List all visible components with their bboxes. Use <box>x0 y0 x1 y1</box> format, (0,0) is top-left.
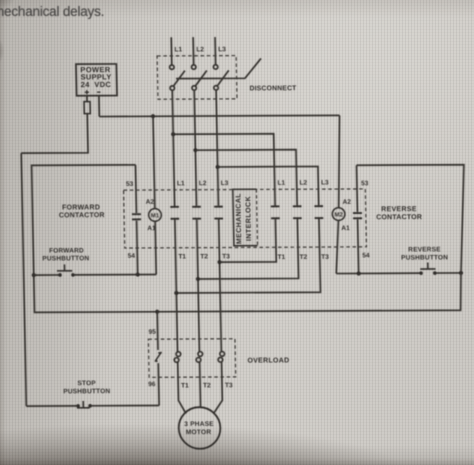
stop pushbutton PB-STOP <box>76 401 92 408</box>
forward main contact pole 2 <box>192 207 201 219</box>
node: reverse 54 junction <box>357 271 361 275</box>
disconnect pole 2 <box>191 65 207 90</box>
node: overload contact junction <box>155 310 159 314</box>
wire: motor lead T2 <box>199 362 202 407</box>
disconnect pole 3 <box>213 65 229 90</box>
wire: supply + terminal down to fuse <box>86 96 88 102</box>
reverse aux contact 53-54 <box>352 165 363 273</box>
svg-text:3 PHASE: 3 PHASE <box>184 421 214 428</box>
wire: L3 tap to reverse pole 3 <box>218 166 319 205</box>
svg-text:FORWARD: FORWARD <box>62 204 100 211</box>
svg-text:T3: T3 <box>321 254 329 261</box>
svg-text:L1: L1 <box>177 180 185 187</box>
power supply PS1 <box>76 64 117 96</box>
node: L1 tap <box>171 132 175 136</box>
wire: bus to overload contact 95 <box>156 312 159 350</box>
disconnect enclosure (dashed) <box>157 56 237 100</box>
wire: disconnect pole 2 to forward contact L2 <box>194 90 196 206</box>
node: reverse holding right junction <box>459 271 463 275</box>
node: T3 crossover junction <box>217 260 221 264</box>
svg-text:CONTACTOR: CONTACTOR <box>59 212 105 219</box>
forward pushbutton line <box>34 273 156 276</box>
svg-text:DISCONNECT: DISCONNECT <box>250 85 298 92</box>
svg-text:96: 96 <box>148 381 156 388</box>
svg-text:MOTOR: MOTOR <box>186 429 212 436</box>
svg-text:T1: T1 <box>278 254 286 261</box>
svg-text:T2: T2 <box>200 253 208 260</box>
svg-text:T2: T2 <box>300 254 308 261</box>
supply lead L2 <box>192 37 195 65</box>
wire: disconnect pole 3 to forward contact L3 <box>216 90 218 206</box>
forward aux contact 53-54 <box>131 165 142 275</box>
node: T2 crossover junction <box>196 277 200 281</box>
svg-text:A1: A1 <box>341 225 350 232</box>
node: L2 tap <box>193 148 197 152</box>
svg-text:54: 54 <box>128 253 136 260</box>
wire: forward T1 down to heater <box>175 220 178 352</box>
svg-text:M2: M2 <box>334 212 343 218</box>
svg-text:M1: M1 <box>151 213 160 219</box>
motor M <box>178 407 220 449</box>
svg-text:L2: L2 <box>199 180 207 187</box>
svg-text:L3: L3 <box>221 180 229 187</box>
overload enclosure (dashed) <box>148 339 235 378</box>
supply lead L1 <box>170 37 173 65</box>
svg-text:53: 53 <box>361 180 369 187</box>
svg-text:L3: L3 <box>218 46 226 53</box>
wire: M2 coil feed drop <box>337 115 342 207</box>
forward main contact pole 1 <box>170 207 179 219</box>
wire: L1 tap to reverse pole 1 <box>173 134 275 206</box>
wire: disconnect pole 1 to forward contact L1 <box>172 90 174 206</box>
svg-text:95: 95 <box>149 329 157 336</box>
node: L3 tap <box>215 165 219 169</box>
svg-text:OVERLOAD: OVERLOAD <box>247 357 289 364</box>
svg-text:24 VDC: 24 VDC <box>81 80 112 89</box>
forward pushbutton PB-FWD <box>57 264 75 276</box>
overload heater OL3 <box>218 352 225 363</box>
stop circuit bottom bus <box>26 404 159 407</box>
svg-text:MECHANICAL: MECHANICAL <box>235 193 243 244</box>
caption text "mechanical delays." <box>0 4 104 19</box>
svg-text:REVERSE: REVERSE <box>381 206 417 213</box>
wire: overload contact 96 down <box>157 363 160 405</box>
reverse main contact pole 2 <box>293 206 302 218</box>
wire: L2 tap to reverse pole 2 <box>195 150 297 206</box>
coil M2 <box>332 208 345 221</box>
wire: M2 A1 drop <box>335 220 339 273</box>
svg-text:PUSHBUTTON: PUSHBUTTON <box>42 255 89 262</box>
overload NC contact 95-96 <box>155 352 162 362</box>
wire: reverse T1 to forward T3 crossover <box>219 219 277 262</box>
svg-text:PUSHBUTTON: PUSHBUTTON <box>401 254 448 261</box>
disconnect pole 1 <box>170 65 186 90</box>
svg-text:L2: L2 <box>299 180 307 187</box>
svg-text:STOP: STOP <box>77 380 96 387</box>
wire: left rail <box>21 153 26 406</box>
forward main contact pole 3 <box>214 207 223 219</box>
reverse main contact pole 1 <box>271 206 280 218</box>
disconnect gang bar and handle <box>176 58 262 78</box>
svg-text:T1: T1 <box>181 382 189 389</box>
svg-text:L3: L3 <box>321 180 329 187</box>
wire: motor lead T1 <box>178 362 186 414</box>
coil M1 <box>149 209 162 222</box>
svg-text:PUSHBUTTON: PUSHBUTTON <box>63 388 110 395</box>
svg-text:A2: A2 <box>343 199 352 206</box>
svg-text:INTERLOCK: INTERLOCK <box>245 196 253 241</box>
wire: M1 A1 to holding line <box>155 221 156 274</box>
svg-text:T2: T2 <box>203 382 211 389</box>
wire: motor lead T3 <box>212 362 222 414</box>
wire: reverse T2 to forward T2 crossover <box>197 219 299 279</box>
overload heater OL1 <box>174 352 181 363</box>
reverse main contact pole 3 <box>314 206 323 218</box>
svg-text:CONTACTOR: CONTACTOR <box>376 214 422 221</box>
fuse F1 <box>84 102 90 114</box>
svg-text:A2: A2 <box>146 199 155 206</box>
main contacts dashed enclosure <box>124 189 367 248</box>
overload heater OL2 <box>196 352 203 363</box>
reverse pushbutton PB-REV <box>419 262 437 274</box>
svg-text:L1: L1 <box>277 180 285 187</box>
svg-text:REVERSE: REVERSE <box>408 246 441 253</box>
forward contactor outline <box>32 165 138 275</box>
wire: DC control bus <box>99 115 339 116</box>
reverse pushbutton line <box>336 272 461 275</box>
svg-text:53: 53 <box>126 181 134 188</box>
reverse contactor outline <box>357 165 467 274</box>
wire: forward T2 down to heater <box>197 220 200 352</box>
svg-text:L1: L1 <box>174 46 182 53</box>
node: T1 crossover junction <box>174 291 178 295</box>
node: forward 54 junction <box>136 272 140 276</box>
svg-text:T1: T1 <box>178 254 186 261</box>
node: M1 coil feed junction <box>151 114 155 118</box>
mechanical interlock box <box>233 189 258 246</box>
node: forward holding left junction <box>32 273 36 277</box>
svg-text:L2: L2 <box>196 46 204 53</box>
wire: forward T3 down to heater <box>219 219 222 352</box>
wire: supply - terminal drop <box>98 96 100 117</box>
supply lead L3 <box>214 37 217 65</box>
svg-text:FORWARD: FORWARD <box>49 247 84 254</box>
wire: fuse to left rail jog <box>20 114 88 154</box>
svg-text:T3: T3 <box>222 253 230 260</box>
svg-text:T3: T3 <box>225 382 233 389</box>
wire: reverse T3 to forward T1 crossover <box>175 219 321 293</box>
wire: holding circuit bus <box>34 273 462 312</box>
wire: M1 coil feed drop <box>153 116 155 208</box>
svg-text:54: 54 <box>362 252 370 259</box>
